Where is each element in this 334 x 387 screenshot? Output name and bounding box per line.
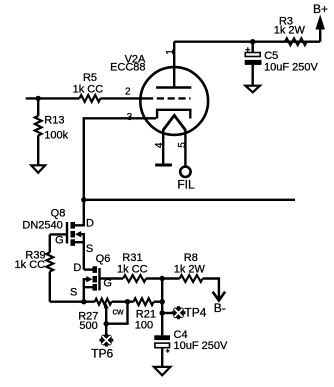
resistor R21 <box>134 298 154 305</box>
polarity + (C4) <box>166 349 170 353</box>
wire: R31 to junction <box>146 277 162 279</box>
terminal B- arrow <box>213 292 226 301</box>
svg-text:1k 2W: 1k 2W <box>174 263 206 275</box>
svg-text:B-: B- <box>214 301 226 315</box>
tube heater <box>163 115 185 130</box>
svg-text:G: G <box>103 277 112 289</box>
svg-text:2: 2 <box>125 87 131 98</box>
wire: R8 to B- <box>203 279 219 299</box>
wiper arrow (R27) <box>104 303 109 308</box>
wire: cathode pin 3 <box>84 118 156 200</box>
svg-text:D: D <box>73 262 81 274</box>
svg-text:4: 4 <box>154 142 165 148</box>
svg-text:R5: R5 <box>83 72 97 84</box>
svg-text:C5: C5 <box>264 50 278 62</box>
svg-text:5: 5 <box>177 142 188 148</box>
svg-text:1k 2W: 1k 2W <box>274 24 306 36</box>
svg-text:10uF 250V: 10uF 250V <box>264 61 318 73</box>
wire: heater pin 4 <box>162 129 164 165</box>
wire: B+ rail <box>174 41 320 43</box>
node: C5 tap <box>250 39 255 44</box>
svg-text:R31: R31 <box>122 252 142 264</box>
svg-text:G: G <box>55 234 64 246</box>
wire: heater pin 5 <box>184 129 186 167</box>
svg-text:ECC88: ECC88 <box>110 62 145 74</box>
tube plate <box>156 86 191 88</box>
svg-text:1: 1 <box>165 49 176 55</box>
wire: R27 right terminal <box>112 301 134 303</box>
wire: R5 to tube grid <box>100 97 146 99</box>
svg-text:R8: R8 <box>184 252 198 264</box>
svg-text:FIL: FIL <box>177 178 195 192</box>
node: Q8 drain junction <box>81 197 86 202</box>
svg-text:cw: cw <box>113 307 125 317</box>
terminal B+ arrow <box>319 26 321 42</box>
svg-text:S: S <box>70 287 77 299</box>
svg-text:1k CC: 1k CC <box>15 259 46 271</box>
polarity + (C5) <box>245 47 250 52</box>
svg-text:DN2540: DN2540 <box>22 219 62 231</box>
svg-text:1k CC: 1k CC <box>73 84 104 96</box>
test point TP6 <box>100 334 114 347</box>
tube V2A envelope <box>140 67 208 135</box>
wire: bottom rail R39 to R27 <box>50 301 95 303</box>
tube grid (dashed) <box>146 97 191 99</box>
terminal bar pin 4 <box>155 164 172 167</box>
svg-text:S: S <box>86 243 93 255</box>
test point TP4 <box>172 306 186 319</box>
node: wiper junction <box>104 321 109 326</box>
svg-text:10uF 250V: 10uF 250V <box>174 340 228 352</box>
transistor Q6 <box>98 268 100 290</box>
ground (C5) <box>245 86 260 93</box>
resistor R5 <box>80 95 101 102</box>
capacitor C5 <box>251 42 253 53</box>
wire: rail down to C4 <box>161 302 163 336</box>
svg-text:100: 100 <box>135 320 153 332</box>
resistor R39 <box>49 234 51 252</box>
resistor R3 <box>285 38 307 45</box>
wire: wiper loop <box>106 302 127 324</box>
svg-text:TP6: TP6 <box>91 346 113 360</box>
wire: TP4 lead <box>162 312 173 314</box>
svg-text:500: 500 <box>79 320 97 332</box>
svg-text:TP4: TP4 <box>184 306 206 320</box>
capacitor C4 <box>154 335 170 340</box>
svg-text:B+: B+ <box>313 2 328 16</box>
resistor R31 <box>123 275 146 282</box>
svg-text:100k: 100k <box>44 129 68 141</box>
node: R31/R8 junction <box>160 276 165 281</box>
wire: R31 junction down to rail <box>161 279 163 302</box>
wire: R21 to C4 junction <box>154 301 163 303</box>
potentiometer R27 <box>95 299 112 305</box>
svg-text:1k CC: 1k CC <box>117 263 148 275</box>
node: R21/C4 junction <box>160 299 165 304</box>
svg-text:3: 3 <box>127 112 133 123</box>
node: Q6 source junction <box>81 299 86 304</box>
ground (R13) <box>31 165 45 173</box>
node: TP4 tap <box>160 310 165 315</box>
svg-text:Q6: Q6 <box>96 253 111 265</box>
wire: grid input stub to R5 <box>26 97 80 99</box>
wire: junction to R8 <box>162 277 179 279</box>
svg-text:Q8: Q8 <box>51 208 66 220</box>
wire: plate lead to B+ rail <box>173 42 175 88</box>
wire: cathode output rail <box>84 199 295 201</box>
node: junction R5/R13 <box>36 96 41 101</box>
resistor R13 <box>37 98 39 116</box>
svg-text:D: D <box>86 218 94 230</box>
node: R27/wiper-loop junction <box>125 299 130 304</box>
ground (C4) <box>154 367 171 375</box>
transistor Q8 DN2540 <box>66 222 68 244</box>
svg-text:R13: R13 <box>44 114 64 126</box>
svg-text:C4: C4 <box>174 329 188 341</box>
terminal FIL circle <box>180 167 190 177</box>
resistor R8 <box>180 275 203 282</box>
tube cathode <box>157 110 190 119</box>
wire: wiper to TP6 <box>105 324 107 335</box>
